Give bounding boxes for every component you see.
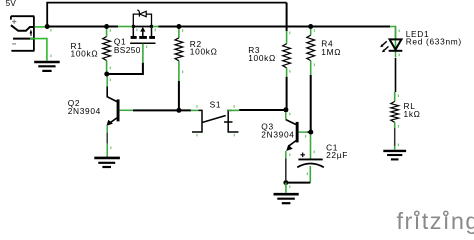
node R4 top bbox=[308, 24, 313, 29]
svg-text:2N3904: 2N3904 bbox=[68, 106, 101, 116]
node R2 bottom junction bbox=[176, 108, 181, 113]
wire top rail bbox=[47, 3, 286, 27]
wire battery minus to ground bbox=[30, 39, 47, 61]
node 5V label bbox=[6, 0, 17, 8]
svg-text:S1: S1 bbox=[210, 99, 222, 109]
wire Q1 gate to node bbox=[109, 44, 143, 74]
resistor R4 bbox=[307, 27, 341, 133]
transistor Q2 2N3904 bbox=[68, 74, 133, 157]
svg-text:Red (633nm): Red (633nm) bbox=[406, 37, 462, 47]
wire Q1 drain green bbox=[152, 26, 159, 28]
ground Q3 bbox=[274, 194, 299, 203]
LED LED1 bbox=[380, 27, 462, 92]
wire rail green to Q1 source bbox=[118, 26, 133, 28]
node R1 bottom junction bbox=[104, 72, 109, 77]
wire pin markers bbox=[50, 29, 400, 189]
wire S1 left pin bbox=[191, 109, 199, 111]
ground RL bbox=[383, 151, 406, 160]
ground battery bbox=[34, 62, 60, 71]
wire Q2 base to S1 bbox=[133, 109, 191, 111]
svg-text:100kΩ: 100kΩ bbox=[248, 53, 276, 63]
node Q3 base junction bbox=[308, 130, 313, 135]
ground Q2 bbox=[94, 158, 120, 167]
resistor R1 bbox=[71, 27, 111, 72]
fritzing watermark bbox=[397, 208, 474, 234]
svg-text:2N3904: 2N3904 bbox=[261, 129, 294, 139]
resistor R3 bbox=[248, 37, 290, 110]
wire rail drop at x286.6 bbox=[286, 3, 288, 37]
battery 5V source bbox=[11, 16, 35, 51]
svg-text:frıtzıng: frıtzıng bbox=[397, 208, 474, 234]
wire battery plus pin bbox=[35, 26, 46, 28]
wire rail to LED corner bbox=[390, 26, 396, 40]
switch S1 bbox=[192, 99, 239, 132]
wire main rail left bbox=[45, 26, 118, 28]
resistor R2 bbox=[175, 27, 218, 111]
svg-text:1kΩ: 1kΩ bbox=[404, 109, 421, 119]
node R1 top bbox=[104, 24, 109, 29]
node Q3 collector junction bbox=[283, 107, 288, 112]
node Q3 emitter junction bbox=[283, 180, 288, 185]
wire node to ground Q3 bbox=[285, 183, 287, 193]
wire main rail middle bbox=[159, 26, 391, 28]
node R2 top bbox=[176, 24, 181, 29]
wire S1 right pin bbox=[228, 109, 239, 111]
svg-text:1MΩ: 1MΩ bbox=[321, 47, 341, 57]
svg-text:BS250: BS250 bbox=[114, 45, 141, 55]
wire S1 to Q3 collector node bbox=[239, 109, 284, 111]
svg-text:100kΩ: 100kΩ bbox=[190, 46, 218, 56]
transistor Q3 2N3904 bbox=[261, 112, 311, 180]
svg-text:22µF: 22µF bbox=[326, 150, 348, 160]
transistor Q1 BS250 bbox=[114, 10, 156, 55]
wire C1 bottom to emitter node bbox=[287, 182, 310, 184]
node battery plus junction bbox=[45, 24, 50, 29]
resistor RL bbox=[391, 92, 421, 150]
svg-text:5V: 5V bbox=[6, 0, 17, 8]
svg-text:100kΩ: 100kΩ bbox=[71, 48, 99, 58]
capacitor C1 bbox=[297, 135, 348, 183]
